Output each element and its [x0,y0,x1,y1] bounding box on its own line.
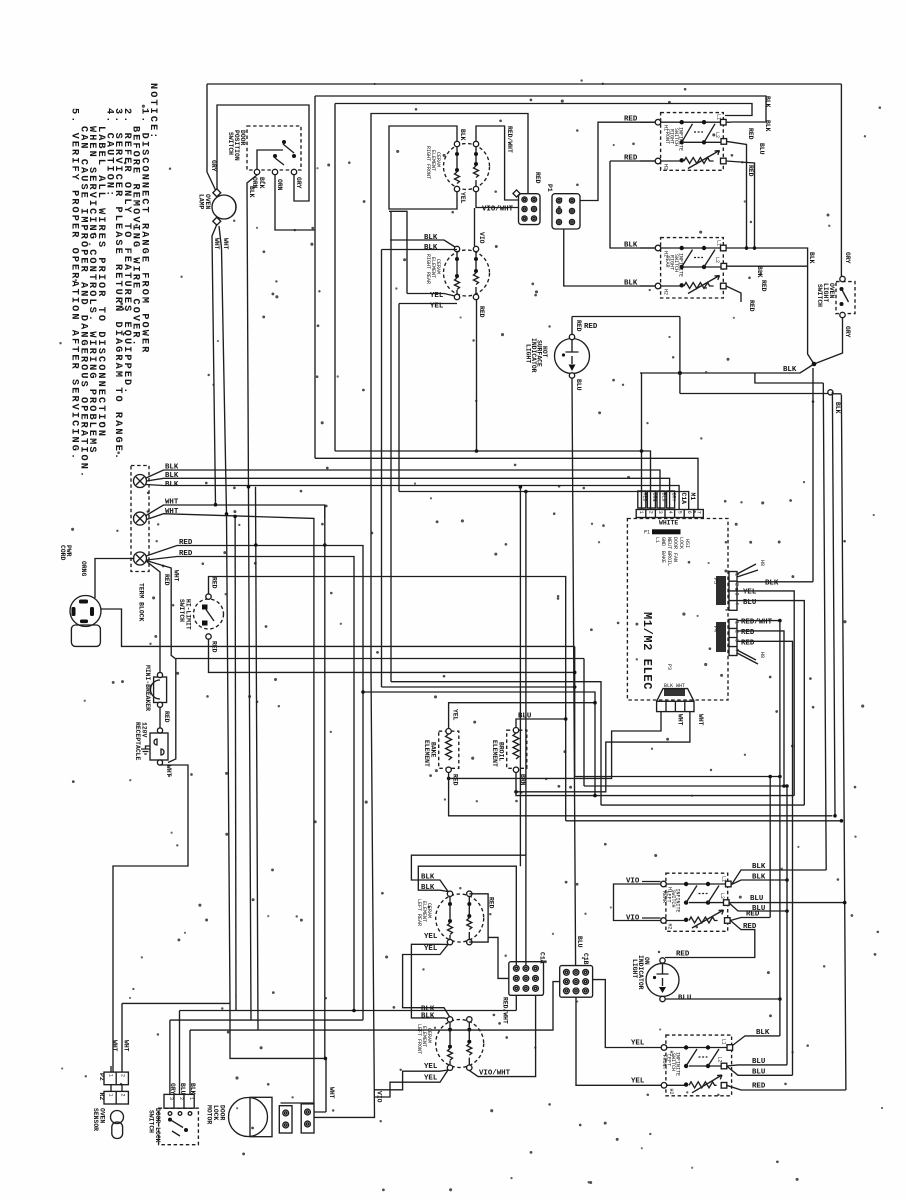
svg-text:RED: RED [534,172,541,184]
svg-text:FAN: FAN [672,553,678,562]
svg-text:C1A: C1A [680,493,687,505]
svg-text:BLK: BLK [764,120,771,132]
svg-text:RED: RED [584,323,598,331]
svg-text:MOTOR: MOTOR [206,1105,213,1124]
svg-text:BLU: BLU [752,1058,765,1066]
svg-text:YEL: YEL [459,192,466,204]
svg-text:RED: RED [452,774,459,786]
svg-text:GRY: GRY [844,326,851,338]
svg-text:2: 2 [120,1074,126,1077]
svg-text:RED: RED [741,639,755,647]
svg-text:YEL: YEL [424,933,438,941]
svg-text:P3: P3 [666,664,672,670]
svg-text:BLK: BLK [834,402,841,414]
svg-text:VIO/WHT: VIO/WHT [479,1070,511,1078]
svg-text:LEFT REAR: LEFT REAR [416,899,422,926]
svg-text:VIO: VIO [626,915,640,923]
svg-text:L2: L2 [717,1057,723,1063]
svg-text:BLU: BLU [575,379,582,391]
svg-text:YEL: YEL [452,709,459,721]
svg-text:RED: RED [642,493,648,502]
svg-text:SWITCH: SWITCH [227,132,234,155]
svg-text:2: 2 [178,1097,184,1100]
svg-text:RED: RED [179,550,193,558]
svg-text:WHT: WHT [111,1040,118,1052]
svg-text:BLU: BLU [179,1083,186,1095]
svg-text:L2: L2 [714,257,720,263]
svg-text:P4: P4 [712,626,718,632]
svg-text:BLU: BLU [678,995,691,1003]
svg-text:6: 6 [686,511,692,514]
svg-text:WHT: WHT [165,508,179,516]
svg-text:BROIL: BROIL [666,551,672,566]
svg-text:H2: H2 [663,289,669,295]
svg-text:GRY: GRY [210,160,217,172]
svg-text:4: 4 [734,602,740,605]
svg-text:M1/M2 ELEC: M1/M2 ELEC [640,612,654,690]
svg-text:BLU: BLU [576,936,583,948]
svg-text:WHT: WHT [165,499,179,507]
svg-text:RED: RED [211,641,218,653]
svg-text:RED/WHT: RED/WHT [506,126,513,153]
svg-text:RED: RED [741,629,755,637]
svg-text:L1: L1 [716,114,722,120]
svg-text:BLK: BLK [258,177,265,189]
svg-text:YEL: YEL [631,1078,645,1086]
svg-text:GND: GND [660,537,666,546]
svg-text:3: 3 [734,593,740,596]
svg-text:FRONT: FRONT [661,1055,667,1070]
svg-text:2: 2 [734,583,740,586]
svg-text:7: 7 [696,511,702,514]
svg-text:RED: RED [575,320,582,332]
svg-text:MINI-BREAKER: MINI-BREAKER [144,665,151,711]
svg-text:WHT: WHT [123,1040,130,1052]
svg-text:WHT: WHT [677,714,684,726]
svg-text:GRY: GRY [844,252,851,264]
svg-text:5. VERIFY PROPER OPERATION AFT: 5. VERIFY PROPER OPERATION AFTER SERVICI… [69,108,80,461]
svg-text:RIGHT FRONT: RIGHT FRONT [425,146,431,179]
svg-text:BLK: BLK [783,366,797,374]
svg-text:TERM BLOCK: TERM BLOCK [138,583,145,622]
svg-text:R2: R2 [98,1093,105,1101]
svg-text:REAR: REAR [664,256,670,268]
svg-text:YEL: YEL [424,1075,438,1083]
svg-text:M1: M1 [689,493,696,501]
svg-text:CORD: CORD [59,545,66,561]
svg-text:WHT: WHT [213,238,220,250]
svg-text:LAMP: LAMP [198,194,205,210]
svg-text:RED: RED [211,577,218,589]
svg-text:P5: P5 [712,578,718,584]
svg-text:WHT: WHT [222,238,229,250]
svg-text:BLK: BLK [752,863,766,871]
svg-text:BAKE: BAKE [660,551,666,563]
svg-text:RED: RED [748,300,755,312]
svg-text:RED/WHT: RED/WHT [741,619,773,627]
svg-text:4: 4 [667,511,673,514]
svg-text:1: 1 [638,511,644,514]
svg-text:BLK: BLK [624,280,638,288]
svg-text:L1: L1 [721,876,727,882]
svg-text:BLK: BLK [165,464,179,472]
svg-text:ELEMENT: ELEMENT [423,740,430,767]
svg-text:RED: RED [760,280,767,292]
svg-text:YEL: YEL [424,1063,438,1071]
svg-text:RED: RED [163,574,170,586]
svg-text:L1: L1 [716,240,722,246]
svg-text:L1: L1 [721,1039,727,1045]
svg-text:BLK: BLK [189,1083,196,1095]
svg-text:WHT: WHT [173,570,180,582]
svg-text:RED: RED [747,128,754,140]
svg-text:H2: H2 [663,164,669,170]
svg-text:NEUT: NEUT [666,537,672,549]
svg-text:VIO/WHT: VIO/WHT [482,206,514,214]
svg-text:LOCK: LOCK [678,537,684,549]
svg-text:ORNG: ORNG [80,561,87,577]
svg-text:BLU: BLU [758,143,765,155]
svg-text:H8: H8 [759,652,765,658]
svg-text:BLK: BLK [808,252,815,264]
svg-text:GRY: GRY [169,1083,176,1095]
svg-text:LIGHT: LIGHT [631,959,638,978]
svg-text:C1A: C1A [539,952,546,964]
svg-text:BLK: BLK [421,1013,435,1021]
svg-text:BLK: BLK [624,242,638,250]
svg-text:H8: H8 [759,560,765,566]
svg-text:H2: H2 [668,1089,674,1095]
svg-text:BLK: BLK [756,1029,770,1037]
svg-text:VIO: VIO [478,232,485,244]
svg-text:2: 2 [120,1094,126,1097]
svg-text:C1B: C1B [582,953,589,965]
svg-text:BLK: BLK [459,129,466,141]
svg-text:BLK: BLK [248,186,255,198]
svg-text:L2: L2 [719,893,725,899]
svg-text:FRONT: FRONT [664,129,670,144]
svg-text:L1: L1 [654,537,660,543]
svg-text:RED: RED [478,306,485,318]
svg-text:P2: P2 [98,1073,105,1081]
svg-text:5: 5 [676,511,682,514]
svg-text:WHT: WHT [165,765,172,777]
svg-text:BLK: BLK [165,472,179,480]
svg-text:BLK: BLK [756,266,763,278]
svg-text:2: 2 [648,511,654,514]
svg-text:1: 1 [734,621,740,624]
svg-text:SENSOR: SENSOR [92,1108,99,1131]
svg-text:SWITCH: SWITCH [178,599,185,622]
svg-text:ELEMENT: ELEMENT [491,740,498,767]
svg-text:WHT: WHT [328,1087,335,1099]
svg-text:RED: RED [179,539,193,547]
svg-text:WHT: WHT [697,714,704,726]
svg-text:1: 1 [108,1074,114,1077]
svg-text:GRY: GRY [670,493,676,502]
svg-text:BLK: BLK [165,481,179,489]
svg-text:BLK: BLK [765,580,779,588]
svg-text:RECEPTACLE: RECEPTACLE [134,722,141,761]
svg-text:P1: P1 [644,530,650,536]
svg-text:BLK: BLK [764,96,771,108]
svg-text:GRY: GRY [295,177,302,189]
svg-text:1: 1 [188,1097,194,1100]
svg-text:BLK: BLK [424,244,438,252]
svg-text:LIGHT: LIGHT [525,344,532,363]
svg-text:BLK WHT: BLK WHT [664,683,685,689]
svg-text:WHITE: WHITE [659,520,678,527]
svg-text:SWITCH: SWITCH [816,284,823,307]
svg-text:RED: RED [752,1083,766,1091]
svg-text:RIGHT REAR: RIGHT REAR [425,254,431,284]
svg-text:YEL: YEL [631,1040,645,1048]
svg-text:REAR: REAR [661,891,667,903]
svg-text:ORN: ORN [651,493,657,502]
svg-text:BLK: BLK [424,234,438,242]
svg-text:1: 1 [108,1094,114,1097]
svg-text:BRN: BRN [519,774,526,786]
svg-text:RED: RED [746,911,760,919]
svg-text:DOOR: DOOR [672,537,678,549]
svg-text:BLU: BLU [750,895,763,903]
svg-text:LEFT FRONT: LEFT FRONT [416,1024,422,1054]
svg-text:BLU: BLU [661,493,667,502]
svg-text:YEL: YEL [743,589,757,597]
svg-text:H2: H2 [667,924,673,930]
svg-text:P1: P1 [546,184,553,192]
svg-text:RED: RED [163,711,170,723]
svg-text:BLK: BLK [752,874,766,882]
svg-text:L2: L2 [714,132,720,138]
svg-text:YEL: YEL [424,945,438,953]
svg-text:3: 3 [657,511,663,514]
svg-text:RED: RED [747,165,754,177]
svg-text:ORN: ORN [276,179,283,191]
svg-text:BLU: BLU [752,1068,765,1076]
svg-text:RED: RED [676,951,690,959]
svg-text:SWITCH: SWITCH [148,1110,155,1133]
svg-text:3: 3 [168,1097,174,1100]
svg-text:RED: RED [743,923,757,931]
svg-text:HSI: HSI [684,539,690,548]
